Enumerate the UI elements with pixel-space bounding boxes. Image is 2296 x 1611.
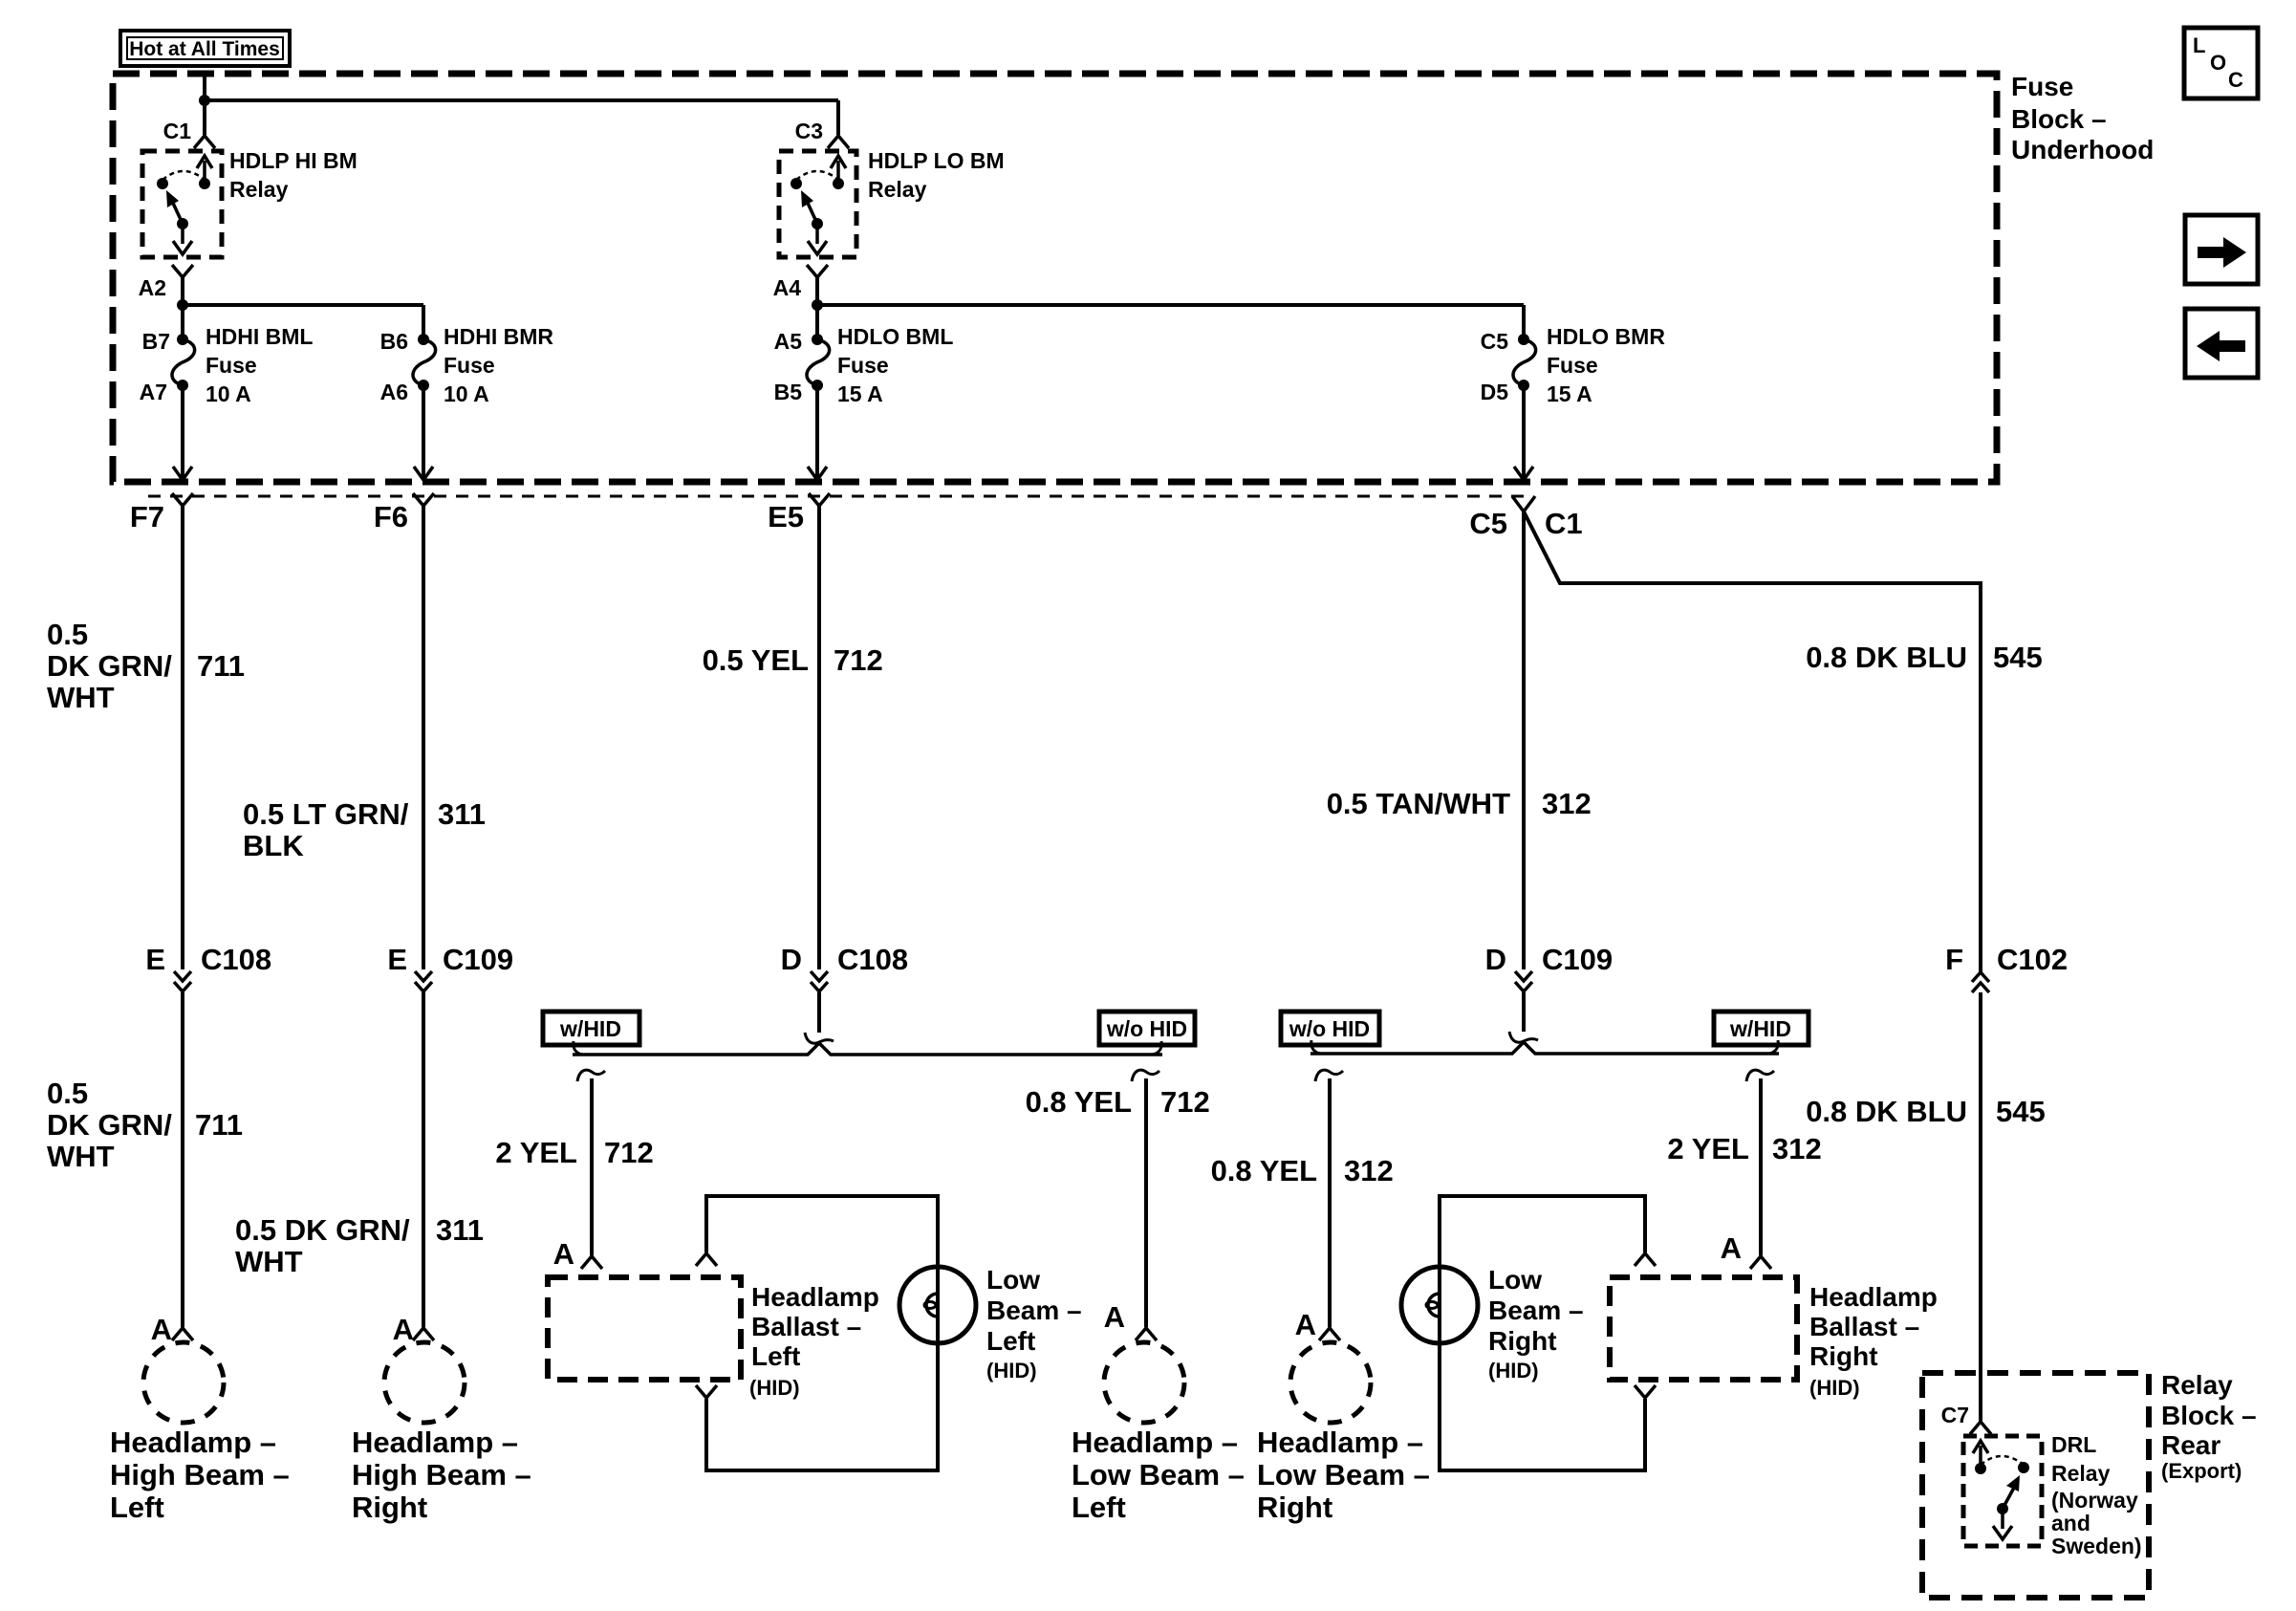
svg-text:0.5 DK GRN/: 0.5 DK GRN/ (235, 1213, 410, 1247)
svg-text:High Beam –: High Beam – (352, 1458, 531, 1491)
page arrow symbol (left) (2185, 309, 2258, 378)
svg-text:WHT: WHT (47, 681, 115, 714)
connector A4 (773, 265, 828, 300)
svg-text:WHT: WHT (235, 1245, 303, 1278)
relay HDLP HI BM fixed contact (arrow up) (197, 156, 212, 189)
relay HDLP LO BM (dashed box) (779, 151, 856, 257)
label: Headlamp Ballast - Left (HID) (749, 1282, 879, 1400)
svg-text:HDHI BML: HDHI BML (206, 324, 313, 349)
label: HDHI BML Fuse 10 A (206, 324, 313, 406)
tag box: w/HID (right) (1714, 1012, 1809, 1045)
fuse block - underhood (dashed outline) (113, 74, 1997, 482)
svg-text:711: 711 (195, 1108, 243, 1142)
svg-text:15 A: 15 A (837, 381, 883, 406)
wire: 311 upper segment (422, 506, 425, 969)
svg-text:A: A (1721, 1231, 1742, 1265)
labels: pins A5 / B5 (774, 329, 803, 404)
svg-text:E: E (145, 943, 165, 976)
wire: 711 upper segment (181, 506, 184, 969)
connector C7 (1941, 1403, 1991, 1434)
connector A2 (139, 265, 193, 300)
svg-text:Low: Low (986, 1265, 1040, 1295)
label: Headlamp - High Beam - Right (352, 1426, 531, 1524)
fuse HDHI BML 10 A (172, 305, 195, 391)
relay HDLP LO BM fixed contact (arrow up) (831, 156, 846, 189)
connector C1 of HDLP HI BM relay (163, 119, 215, 148)
page arrow symbol (right) (2185, 215, 2258, 284)
svg-text:DRL: DRL (2051, 1432, 2096, 1457)
svg-text:C109: C109 (1542, 943, 1613, 976)
connector F C102 (1945, 943, 2068, 992)
svg-text:C108: C108 (837, 943, 908, 976)
svg-text:HDLP LO BM: HDLP LO BM (868, 148, 1005, 173)
label: 2 YEL 712 (495, 1136, 653, 1169)
split bus C109 (w/o HID vs w/HID) (1310, 1040, 1779, 1054)
label: Low Beam - Right (HID) (1488, 1265, 1584, 1382)
svg-text:Headlamp –: Headlamp – (352, 1426, 518, 1459)
connector F6 (374, 493, 434, 533)
connector: ballast right bottom (1635, 1385, 1656, 1398)
svg-text:10 A: 10 A (206, 381, 251, 406)
DRL relay (dashed box) (1963, 1436, 2042, 1546)
svg-text:0.8 YEL: 0.8 YEL (1026, 1085, 1132, 1119)
DRL relay output (arrow down) (1993, 1509, 2012, 1539)
wire: drop to connector C3 (836, 100, 840, 135)
connector pin A (low beam left lamp) (1104, 1300, 1157, 1340)
label: Headlamp - Low Beam - Right (1257, 1426, 1430, 1524)
DRL relay coil contact (right) + dashed arc (1981, 1456, 2029, 1473)
svg-text:Relay: Relay (2051, 1461, 2111, 1486)
label: 0.8 YEL 712 (1026, 1085, 1210, 1119)
connector F7 (130, 493, 193, 533)
svg-text:A: A (151, 1313, 172, 1346)
svg-text:Right: Right (1809, 1341, 1878, 1371)
svg-text:HDLO BMR: HDLO BMR (1547, 324, 1665, 349)
svg-text:712: 712 (834, 643, 883, 677)
labels: pins B7 / A7 (140, 329, 170, 404)
svg-text:Headlamp –: Headlamp – (1257, 1426, 1423, 1459)
label: 2 YEL 312 (1667, 1132, 1821, 1165)
svg-text:C3: C3 (795, 119, 823, 143)
label: HDLO BMR Fuse 15 A (1547, 324, 1665, 406)
svg-text:Left: Left (110, 1491, 164, 1524)
harness interface (thin dashed line) (148, 495, 1524, 498)
svg-text:HDHI BMR: HDHI BMR (444, 324, 553, 349)
connector: ballast right top (1635, 1253, 1656, 1266)
connector pin A (ballast left) (553, 1237, 602, 1271)
svg-text:312: 312 (1344, 1154, 1394, 1187)
svg-text:Fuse: Fuse (1547, 353, 1598, 378)
label: HDLO BML Fuse 15 A (837, 324, 953, 406)
svg-text:0.5 TAN/WHT: 0.5 TAN/WHT (1327, 787, 1510, 820)
connector E C108 (left high beam) (145, 943, 271, 991)
svg-text:B5: B5 (774, 380, 803, 404)
svg-text:312: 312 (1542, 787, 1592, 820)
svg-text:Relay: Relay (229, 177, 289, 202)
DRL relay armature (switch arm) (1997, 1475, 2020, 1514)
svg-text:10 A: 10 A (444, 381, 489, 406)
connector pin A (high beam left) (151, 1313, 193, 1346)
wire: 545 lower segment (1979, 992, 1982, 1421)
fuse HDLO BMR 15 A (1513, 305, 1536, 391)
connector: ballast left bottom (696, 1385, 717, 1398)
svg-text:w/HID: w/HID (1729, 1016, 1791, 1041)
wire: fuse HDHI BMR output with arrow (414, 385, 433, 480)
connector: ballast left top (696, 1253, 717, 1266)
svg-text:B7: B7 (142, 329, 170, 354)
svg-text:Underhood: Underhood (2011, 135, 2154, 164)
svg-text:545: 545 (1996, 1095, 2046, 1128)
svg-text:712: 712 (604, 1136, 654, 1169)
svg-text:DK GRN/: DK GRN/ (47, 649, 172, 683)
svg-text:Left: Left (1072, 1491, 1126, 1524)
svg-text:Relay: Relay (2161, 1370, 2233, 1400)
label: Fuse Block - Underhood (2011, 72, 2154, 164)
svg-text:712: 712 (1160, 1085, 1210, 1119)
svg-text:Block –: Block – (2011, 104, 2107, 134)
svg-text:311: 311 (438, 797, 486, 831)
svg-text:Fuse: Fuse (206, 353, 257, 378)
junction at A2 rail (177, 299, 188, 311)
svg-text:C1: C1 (163, 119, 192, 143)
svg-text:Block –: Block – (2161, 1401, 2257, 1430)
svg-text:C7: C7 (1941, 1403, 1969, 1427)
wire: 712 upper segment (817, 506, 821, 969)
svg-text:w/HID: w/HID (559, 1016, 621, 1041)
svg-text:Headlamp: Headlamp (751, 1282, 879, 1312)
svg-text:(HID): (HID) (1488, 1359, 1539, 1382)
svg-text:Ballast –: Ballast – (1809, 1312, 1919, 1341)
relay HDLP HI BM armature (switch arm) (166, 190, 188, 229)
svg-text:C102: C102 (1997, 943, 2068, 976)
connector E5 (768, 493, 830, 533)
svg-text:Beam –: Beam – (986, 1295, 1082, 1325)
svg-text:E5: E5 (768, 500, 804, 533)
svg-text:Low Beam –: Low Beam – (1072, 1458, 1245, 1491)
wire: 712 to split (805, 992, 834, 1043)
svg-text:BLK: BLK (243, 829, 304, 862)
svg-text:C109: C109 (443, 943, 513, 976)
wire: relay1 output to fuse rail (181, 277, 184, 305)
wire: fuse HDLO BMR output with arrow (1514, 385, 1533, 480)
svg-text:w/o HID: w/o HID (1106, 1016, 1187, 1041)
svg-text:545: 545 (1993, 641, 2043, 674)
svg-text:w/o HID: w/o HID (1289, 1016, 1370, 1041)
label: 0.5 DK GRN/WHT 711 (upper) (47, 618, 245, 714)
wire: 711 lower segment (181, 992, 184, 1327)
svg-text:Left: Left (986, 1326, 1035, 1356)
relay HDLP LO BM output (arrow down) (808, 224, 827, 254)
connector D C109 (low beam right) (1485, 943, 1614, 991)
svg-text:Beam –: Beam – (1488, 1295, 1584, 1325)
wire: power rail to C3 (205, 98, 838, 102)
svg-text:Rear: Rear (2161, 1430, 2220, 1460)
connector C3 of HDLP LO BM relay (795, 119, 849, 148)
svg-text:Headlamp –: Headlamp – (110, 1426, 276, 1459)
label: 0.8 DK BLU 545 (lower) (1806, 1095, 2046, 1128)
headlamp ballast - left (dashed box) (548, 1277, 741, 1380)
svg-text:Low: Low (1488, 1265, 1542, 1295)
svg-text:Ballast –: Ballast – (751, 1312, 861, 1341)
label: Headlamp Ballast - Right (HID) (1809, 1282, 1938, 1400)
svg-text:D: D (1485, 943, 1506, 976)
connector C5/C1 splice (1469, 496, 1582, 540)
svg-text:0.5: 0.5 (47, 618, 88, 651)
svg-text:15 A: 15 A (1547, 381, 1592, 406)
wire: 312 to split (1509, 992, 1538, 1042)
wire: rail to HDHI BMR fuse (183, 303, 423, 307)
svg-text:Relay: Relay (868, 177, 927, 202)
svg-text:O: O (2210, 51, 2226, 75)
junction: power rail tap (199, 95, 210, 106)
svg-text:DK GRN/: DK GRN/ (47, 1108, 172, 1142)
svg-text:Hot at All Times: Hot at All Times (129, 38, 280, 60)
svg-text:Fuse: Fuse (837, 353, 889, 378)
headlamp ballast - right (dashed box) (1610, 1277, 1797, 1380)
svg-text:C5: C5 (1469, 507, 1507, 540)
relay block - rear (dashed box) (1922, 1373, 2149, 1598)
low beam - left bulb (HID) (899, 1267, 976, 1343)
label: HDLP LO BM Relay (868, 148, 1005, 202)
svg-text:HDLO BML: HDLO BML (837, 324, 953, 349)
wire: 2 YEL 712 branch (577, 1070, 605, 1255)
headlamp - high beam - left (dashed circle) (143, 1342, 224, 1423)
label: 0.5 DK GRN/WHT 311 (235, 1213, 484, 1278)
svg-text:(HID): (HID) (749, 1376, 800, 1400)
wire: drop to connector C1 (203, 100, 206, 135)
label: DRL Relay (Norway and Sweden) (2051, 1432, 2142, 1558)
svg-text:2 YEL: 2 YEL (495, 1136, 577, 1169)
DRL relay fixed contact (arrow up) (1973, 1441, 1988, 1474)
label: Relay Block - Rear (Export) (2161, 1370, 2257, 1483)
svg-text:D5: D5 (1481, 380, 1509, 404)
label: Low Beam - Left (HID) (986, 1265, 1082, 1382)
svg-text:C1: C1 (1545, 507, 1583, 540)
svg-text:Fuse: Fuse (444, 353, 495, 378)
label: HDHI BMR Fuse 10 A (444, 324, 553, 406)
svg-text:(HID): (HID) (986, 1359, 1037, 1382)
svg-text:A: A (1295, 1308, 1316, 1341)
label: 0.5 LT GRN/BLK 311 (243, 797, 486, 862)
svg-text:(Export): (Export) (2161, 1459, 2242, 1483)
svg-text:Low Beam –: Low Beam – (1257, 1458, 1430, 1491)
label: 0.8 YEL 312 (1211, 1154, 1394, 1187)
connector pin A (high beam right) (393, 1313, 434, 1346)
wire: 311 lower segment (422, 992, 425, 1327)
svg-text:2 YEL: 2 YEL (1667, 1132, 1749, 1165)
svg-text:A: A (1104, 1300, 1125, 1334)
fuse HDLO BML 15 A (807, 305, 830, 391)
svg-text:711: 711 (197, 649, 245, 683)
connector D C108 (low beam left) (781, 943, 909, 991)
svg-text:B6: B6 (380, 329, 408, 354)
svg-text:Left: Left (751, 1341, 800, 1371)
svg-text:C: C (2228, 68, 2243, 92)
svg-text:A: A (393, 1313, 414, 1346)
split bus C108 (w/HID vs w/o HID) (573, 1041, 1162, 1055)
fuse HDHI BMR 10 A (413, 305, 436, 391)
svg-text:(HID): (HID) (1809, 1376, 1860, 1400)
wire: 545 diagonal from C1 splice (1524, 512, 1981, 972)
svg-text:A4: A4 (773, 275, 802, 300)
svg-text:WHT: WHT (47, 1140, 115, 1173)
wire: battery feed (203, 74, 206, 100)
svg-text:C5: C5 (1481, 329, 1509, 354)
svg-text:312: 312 (1772, 1132, 1822, 1165)
label: Headlamp - High Beam - Left (110, 1426, 290, 1524)
headlamp - low beam - left (dashed circle) (1104, 1342, 1184, 1423)
svg-text:F: F (1945, 943, 1963, 976)
svg-text:A2: A2 (139, 275, 166, 300)
label box: Hot at All Times (120, 31, 290, 66)
labels: pins B6 / A6 (380, 329, 408, 404)
svg-text:A6: A6 (380, 380, 408, 404)
svg-text:and: and (2051, 1511, 2090, 1535)
svg-text:E: E (387, 943, 407, 976)
junction at A4 rail (812, 299, 823, 311)
low beam - right bulb (HID) (1401, 1267, 1478, 1343)
svg-text:Headlamp –: Headlamp – (1072, 1426, 1238, 1459)
wire: 0.8 YEL 712 branch (1132, 1070, 1159, 1327)
svg-text:(Norway: (Norway (2051, 1488, 2138, 1513)
labels: pins C5 / D5 (1481, 329, 1509, 404)
connector E C109 (right high beam) (387, 943, 513, 991)
relay HDLP LO BM armature (switch arm) (801, 190, 823, 229)
svg-text:Right: Right (1257, 1491, 1332, 1524)
svg-text:F7: F7 (130, 500, 164, 533)
ballast-right loop wiring (solid box) (1440, 1196, 1645, 1470)
wire: fuse HDLO BML output with arrow (808, 385, 827, 480)
ballast-left loop wiring (solid box) (706, 1196, 938, 1470)
headlamp - low beam - right (dashed circle) (1290, 1342, 1371, 1423)
label: Headlamp - Low Beam - Left (1072, 1426, 1245, 1524)
svg-text:L: L (2193, 33, 2205, 57)
wire: fuse HDHI BML output with arrow (173, 385, 192, 480)
wire: 0.8 YEL 312 branch (1315, 1070, 1343, 1327)
tag box: w/o HID (right split) (1281, 1012, 1379, 1045)
svg-text:0.5 YEL: 0.5 YEL (703, 643, 809, 677)
label: 0.5 TAN/WHT 312 (1327, 787, 1592, 820)
connector pin A (low beam right lamp) (1295, 1308, 1340, 1341)
svg-text:0.5 LT GRN/: 0.5 LT GRN/ (243, 797, 409, 831)
svg-text:311: 311 (436, 1213, 484, 1247)
svg-text:High Beam –: High Beam – (110, 1458, 290, 1491)
wire: 2 YEL 312 branch (1746, 1070, 1774, 1255)
svg-text:A5: A5 (774, 329, 803, 354)
label: 0.5 YEL 712 (703, 643, 883, 677)
wire: 312 upper segment (1522, 512, 1526, 969)
svg-text:A7: A7 (140, 380, 167, 404)
svg-text:Headlamp: Headlamp (1809, 1282, 1938, 1312)
wire: rail to HDLO BMR fuse (817, 303, 1524, 307)
relay HDLP HI BM (dashed box) (142, 151, 222, 257)
svg-text:Right: Right (352, 1491, 427, 1524)
connector pin A (ballast right) (1721, 1231, 1771, 1269)
svg-text:Right: Right (1488, 1326, 1557, 1356)
relay HDLP HI BM coil contact (left) + dashed arc (157, 171, 205, 189)
svg-text:A: A (553, 1237, 574, 1271)
svg-text:0.5: 0.5 (47, 1077, 88, 1110)
svg-text:HDLP HI BM: HDLP HI BM (229, 148, 357, 173)
relay HDLP LO BM coil contact (left) + dashed arc (791, 171, 838, 189)
tag box: w/o HID (left split) (1099, 1012, 1195, 1045)
svg-text:0.8 DK BLU: 0.8 DK BLU (1806, 1095, 1967, 1128)
svg-text:0.8 YEL: 0.8 YEL (1211, 1154, 1317, 1187)
svg-text:D: D (781, 943, 802, 976)
svg-text:0.8 DK BLU: 0.8 DK BLU (1806, 641, 1967, 674)
label: 0.8 DK BLU 545 (upper) (1806, 641, 2043, 674)
svg-text:F6: F6 (374, 500, 408, 533)
svg-text:Sweden): Sweden) (2051, 1534, 2142, 1558)
svg-text:Fuse: Fuse (2011, 72, 2073, 101)
label: 0.5 DK GRN/WHT 711 (lower) (47, 1077, 243, 1173)
wire: relay2 output to fuse rail (815, 277, 819, 305)
LOC reference box (2184, 28, 2258, 98)
relay HDLP HI BM output (arrow down) (173, 224, 192, 254)
svg-text:C108: C108 (201, 943, 271, 976)
headlamp - high beam - right (dashed circle) (384, 1342, 465, 1423)
tag box: w/HID (left) (543, 1012, 639, 1045)
label: HDLP HI BM Relay (229, 148, 357, 202)
